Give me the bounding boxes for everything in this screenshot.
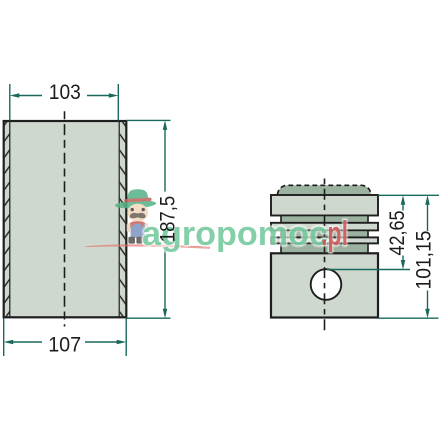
hatching right wall bbox=[120, 122, 126, 316]
piston bottom leader bbox=[378, 317, 439, 319]
dimension 42,65 upper segment with up arrow bbox=[402, 203, 404, 211]
cylinder liner body bbox=[4, 121, 127, 317]
svg-text:42,65: 42,65 bbox=[386, 211, 409, 256]
piston pin hole bbox=[311, 269, 342, 300]
cylinder inner wall line right bbox=[118, 121, 120, 317]
piston ring 2 bbox=[271, 237, 378, 243]
dimension 42,65 lower segment with down arrow bbox=[402, 256, 404, 262]
farmer overall strap right bbox=[141, 222, 143, 226]
dimension 103 line left segment with arrow bbox=[18, 95, 42, 97]
farmer right arm bbox=[144, 223, 148, 232]
hatching left wall bbox=[5, 122, 10, 316]
piston pin leader bbox=[327, 269, 410, 271]
piston centerline bbox=[324, 179, 326, 335]
piston groove band 2 bbox=[281, 230, 368, 237]
farmer overalls bbox=[131, 224, 145, 238]
piston groove band 1 bbox=[281, 216, 368, 223]
svg-text:.pl: .pl bbox=[321, 215, 348, 253]
watermark farmer mascot bbox=[115, 189, 157, 243]
farmer mustache bbox=[130, 213, 146, 219]
cylinder inner wall line left bbox=[9, 121, 11, 317]
dimension 107 extension line left bbox=[3, 319, 5, 357]
piston crown dome bbox=[277, 185, 371, 194]
farmer left arm bbox=[127, 223, 131, 232]
piston skirt bbox=[271, 253, 378, 317]
dimension 107 line left segment with arrow bbox=[12, 341, 42, 343]
farmer shirt bbox=[128, 221, 147, 228]
dimension 103 extension line right bbox=[117, 84, 119, 121]
farmer eye right bbox=[142, 208, 145, 211]
farmer face bbox=[127, 204, 148, 222]
piston groove band 3 bbox=[281, 243, 368, 253]
piston top leader bbox=[378, 194, 439, 196]
farmer hat band bbox=[124, 198, 152, 203]
cylinder centerline bbox=[64, 111, 66, 326]
watermark red swoosh bbox=[85, 244, 210, 248]
dimension 187,5 line upper segment with up arrow bbox=[164, 128, 166, 192]
dimension 101,15 upper segment with up arrow bbox=[427, 203, 429, 231]
dimension 107 line right segment with arrow bbox=[85, 341, 118, 343]
dimension 187,5 top leader bbox=[127, 119, 171, 121]
farmer hat brim bbox=[115, 199, 157, 209]
svg-text:187,5: 187,5 bbox=[156, 196, 179, 243]
dimension 187,5 bottom leader bbox=[127, 317, 171, 319]
dimension 187,5 line lower segment with down arrow bbox=[164, 250, 166, 310]
farmer boot left bbox=[128, 237, 135, 244]
svg-text:103: 103 bbox=[49, 81, 81, 104]
piston ring 1 bbox=[271, 223, 378, 231]
piston top land bbox=[271, 195, 378, 216]
farmer eye left bbox=[131, 208, 134, 211]
svg-text:101,15: 101,15 bbox=[413, 231, 436, 290]
farmer boot right bbox=[136, 237, 142, 244]
dimension 107 extension line right bbox=[125, 319, 127, 357]
dimension 101,15 lower segment with down arrow bbox=[427, 291, 429, 311]
farmer overall strap left bbox=[132, 222, 134, 226]
farmer hat crown bbox=[127, 189, 149, 203]
dimension 103 line right segment with arrow bbox=[87, 95, 110, 97]
dimension 103 extension line left bbox=[9, 84, 11, 121]
svg-text:107: 107 bbox=[48, 334, 81, 357]
